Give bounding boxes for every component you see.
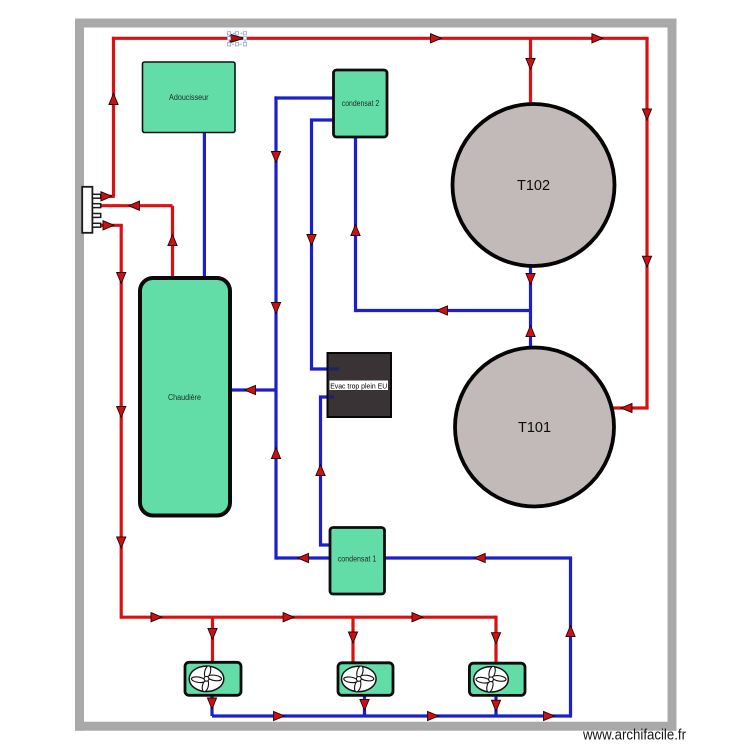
arrow right on bottom run 1 (151, 613, 162, 622)
label Evac trop plein EU (330, 381, 389, 391)
arrow left to drop x276 (298, 553, 309, 562)
pipe red fan3 feed (494, 616, 497, 664)
pipe red manifold outlet 2 (100, 204, 173, 207)
boiler Chaudiere (140, 278, 230, 516)
pipe blue fan1 drain (210, 695, 213, 717)
arrow up on left riser (109, 94, 118, 105)
pipe red down to boiler top (171, 206, 174, 279)
svg-text:Adoucisseur: Adoucisseur (169, 92, 209, 102)
arrow up x320 (316, 465, 325, 476)
label Chaudiere (168, 393, 201, 402)
arrow down from T102 (526, 274, 535, 285)
arrow down fan2 drain (360, 700, 369, 711)
pipe blue condensat2 to left drop (274, 96, 334, 99)
tank T102 (453, 104, 615, 266)
pipe blue left drop x276 (274, 96, 277, 559)
fan unit 2 (338, 663, 393, 696)
arrow up to junction (526, 326, 535, 337)
wall right (668, 19, 677, 731)
arrow down fan1 drain (207, 698, 216, 709)
arrow left into T101 (621, 403, 632, 412)
pipe blue fan2 drain (363, 695, 366, 717)
pipe blue bottom return (212, 714, 571, 717)
pipe blue fan3 drain (494, 695, 497, 717)
arrow right bottom return 3 (544, 711, 555, 720)
label T101 (518, 420, 551, 436)
arrow right bottom return 2 (428, 711, 439, 720)
wall top (75, 19, 677, 28)
arrow down on long drop 2 (117, 407, 126, 418)
water softener Adoucisseur (143, 62, 236, 133)
arrow left on mid horizontal (437, 306, 448, 315)
arrow down x276 1 (271, 152, 280, 163)
arrow up on right riser (566, 626, 575, 637)
arrow right bottom return 1 (274, 711, 285, 720)
pipe red manifold outlet 4 (100, 224, 123, 227)
svg-text:T101: T101 (518, 420, 551, 436)
wall bottom (75, 722, 677, 731)
fan unit 3 (469, 663, 525, 695)
pipe red manifold outlet 1 (100, 195, 115, 198)
svg-text:Evac trop plein EU: Evac trop plein EU (330, 381, 387, 390)
pipe blue branch into boiler (229, 388, 276, 391)
arrow down x276 2 (271, 303, 280, 314)
arrow down x311 (307, 235, 316, 246)
wall left (75, 19, 84, 731)
manifold stub 3 (92, 214, 100, 218)
pipe blue right riser (569, 558, 572, 718)
arrow up x276 (271, 448, 280, 459)
pipe red long left drop (120, 225, 123, 619)
pipe blue condensat2 to evac (312, 120, 335, 369)
manifold stub 2 (92, 204, 100, 208)
arrow right leaving manifold (103, 221, 114, 230)
arrow down fan1 feed (208, 629, 217, 640)
pipe blue T102 bottom (529, 265, 532, 311)
pipe stub inside evac box (329, 367, 339, 370)
arrow down on long drop 1 (117, 273, 126, 284)
arrow down fan3 drain (491, 700, 500, 711)
arrow right on top run 2 (592, 34, 603, 43)
label Adoucisseur (169, 92, 209, 102)
tank T101 (455, 348, 614, 507)
arrow right on top run 1 (431, 34, 442, 43)
label condensat 2 (342, 99, 380, 108)
pipe blue condensat2 bottom drop (354, 136, 357, 312)
svg-text:Chaudière: Chaudière (168, 393, 201, 402)
svg-text:condensat 1: condensat 1 (338, 555, 377, 564)
pipe red fan2 feed (351, 617, 354, 663)
tank condensat 1 (330, 528, 385, 595)
selected arrow with handles on top run (227, 32, 246, 46)
fan unit 1 (185, 662, 241, 695)
tank condensat 2 (334, 70, 388, 137)
label condensat 1 (338, 555, 377, 564)
pipe blue mid horizontal (356, 309, 531, 312)
arrow down fan3 feed (491, 633, 500, 644)
arrow down on right drop 2 (642, 256, 651, 267)
arrow left into manifold (129, 201, 140, 210)
arrow left into boiler (245, 385, 256, 394)
pipe blue softener to boiler (203, 132, 206, 279)
pipe red riser left (112, 37, 115, 197)
arrow down on long drop 3 (117, 537, 126, 548)
pipe blue into condensat1 left (276, 556, 331, 559)
arrow down on T102 feed (526, 59, 535, 70)
manifold body (82, 187, 92, 233)
svg-text:T102: T102 (517, 178, 550, 194)
svg-text:condensat 2: condensat 2 (342, 99, 380, 108)
arrow right on bottom run 3 (412, 613, 423, 622)
arrow right into riser (101, 192, 112, 201)
pipe red bottom run (121, 616, 496, 619)
pipe blue condensat1 right run (384, 556, 572, 559)
arrow down on right drop 1 (642, 109, 651, 120)
pipe red T102 feed (529, 38, 532, 106)
manifold stub 4 (92, 223, 100, 227)
svg-text:www.archifacile.fr: www.archifacile.fr (582, 727, 686, 744)
arrow left to condensat1 (474, 553, 485, 562)
arrow up to condensat2 (351, 225, 360, 236)
pipe blue T101 top (529, 311, 532, 351)
label T102 (517, 178, 550, 194)
pipe blue evac to condensat1 (321, 397, 331, 545)
pipe stub inside evac box lower (329, 395, 334, 398)
arrow down fan2 feed (348, 632, 357, 643)
pipe red top run (112, 37, 649, 40)
arrow up to manifold branch (168, 235, 177, 246)
manifold stub 1 (92, 194, 100, 198)
pipe red fan1 feed (211, 617, 214, 663)
watermark www.archifacile.fr (582, 727, 686, 744)
arrow right on bottom run 2 (283, 613, 294, 622)
overflow drain box Evac trop plein EU (328, 353, 392, 417)
pipe red into T101 (612, 406, 649, 409)
pipe red right drop (645, 38, 648, 408)
